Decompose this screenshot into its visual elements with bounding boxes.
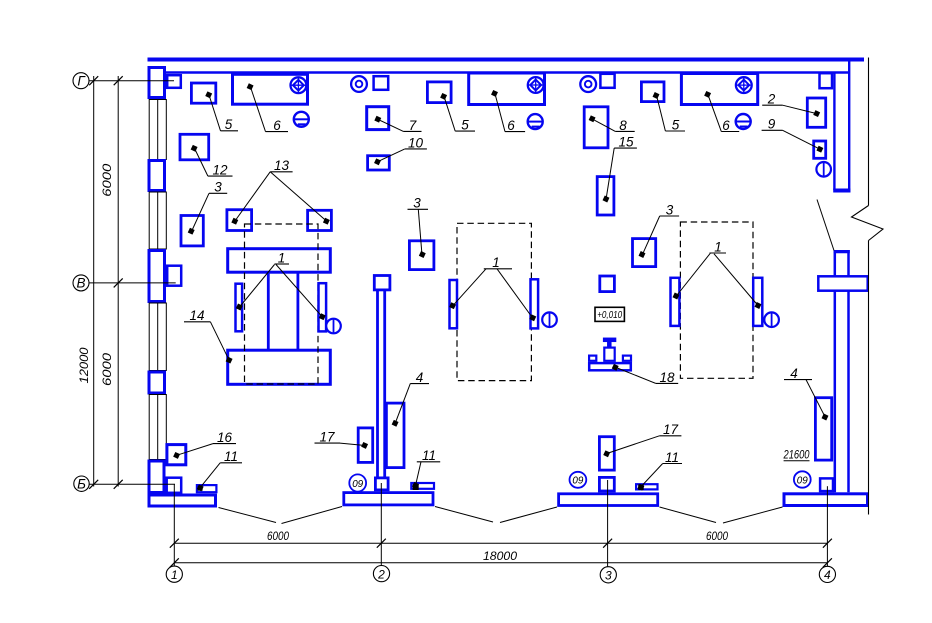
door mark ellipse 09 axis3 xyxy=(570,472,587,488)
svg-text:11: 11 xyxy=(224,449,238,464)
svg-text:21600: 21600 xyxy=(783,450,810,462)
right wall cap above door xyxy=(833,189,850,193)
svg-text:5: 5 xyxy=(225,117,233,132)
svg-text:2: 2 xyxy=(377,567,385,581)
dim line A bottom xyxy=(174,542,827,544)
post 1 bay2 right xyxy=(531,279,539,328)
bottom-left wall band xyxy=(149,495,216,506)
label 5 second xyxy=(440,93,475,133)
mark 21600 xyxy=(783,450,810,462)
wheel symbol bay3 xyxy=(764,312,779,327)
svg-text:4: 4 xyxy=(416,370,424,385)
equipment 3 third xyxy=(633,239,656,267)
svg-text:6: 6 xyxy=(273,118,281,133)
left wall corner block xyxy=(149,68,165,98)
axis extension line 3 xyxy=(607,480,609,567)
lift 14 bottom bar xyxy=(228,350,331,384)
footing axis2 xyxy=(344,493,433,505)
axis extension line 1 xyxy=(173,484,175,566)
svg-text:Б: Б xyxy=(77,476,86,491)
label 1 bay3 xyxy=(673,239,762,309)
axis circle Г xyxy=(73,73,89,89)
window 1 xyxy=(149,100,166,160)
break line outer right upper xyxy=(868,58,870,206)
equipment 15 xyxy=(597,177,614,215)
theta symbol 2 xyxy=(528,114,543,129)
footing axis3 xyxy=(559,494,658,506)
svg-text:09: 09 xyxy=(572,475,583,487)
post 1 bay2 left xyxy=(450,280,458,328)
svg-text:14: 14 xyxy=(189,308,204,323)
label 12 xyxy=(191,145,233,178)
svg-text:6000: 6000 xyxy=(706,531,729,543)
concentric circle symbol 1 xyxy=(351,76,367,92)
equipment 10 xyxy=(368,156,390,170)
svg-text:13: 13 xyxy=(274,158,290,173)
wall top inner line xyxy=(166,71,851,74)
label 6 second xyxy=(491,90,525,133)
equipment 3 second xyxy=(409,241,434,270)
svg-text:16: 16 xyxy=(217,430,233,445)
axis extension line 4 xyxy=(826,486,828,566)
left wall pier 2 xyxy=(149,372,165,393)
door mark ellipse 09 axis2 xyxy=(349,474,366,491)
svg-text:09: 09 xyxy=(352,478,363,490)
axis circle 2 xyxy=(373,566,389,582)
svg-text:В: В xyxy=(76,276,85,291)
svg-text:+0,010: +0,010 xyxy=(597,309,622,321)
equipment 6 third workbench xyxy=(681,74,757,105)
label 13 xyxy=(231,158,330,224)
fan symbol 3 xyxy=(736,77,752,93)
label 2 xyxy=(762,92,820,117)
label 4 second xyxy=(784,366,828,420)
elevation box +0,010 xyxy=(595,307,624,321)
label 11 second xyxy=(637,450,682,491)
label 15 xyxy=(603,135,637,203)
svg-text:7: 7 xyxy=(409,118,417,133)
label 17 second xyxy=(603,422,681,457)
svg-text:17: 17 xyxy=(319,430,335,445)
partition shaft axis2 xyxy=(378,290,385,478)
label 6 third xyxy=(704,91,739,133)
equipment 17 second xyxy=(599,437,614,470)
label 9 xyxy=(762,117,824,153)
right wall inner line upper xyxy=(833,72,835,190)
fan symbol 1 xyxy=(291,77,307,93)
left wall pier 1 xyxy=(149,161,165,191)
theta symbol 3 xyxy=(736,114,751,129)
wheel symbol bay1 xyxy=(326,319,341,334)
theta symbol 1 xyxy=(294,112,309,127)
axis circle 3 xyxy=(600,567,616,583)
svg-text:4: 4 xyxy=(790,366,798,381)
axis line В xyxy=(89,282,176,284)
svg-text:12000: 12000 xyxy=(79,347,91,384)
label 1 bay1 xyxy=(236,250,326,320)
equipment 5 third xyxy=(641,82,664,102)
svg-text:09: 09 xyxy=(797,474,808,486)
equipment 11 bottom-left xyxy=(197,485,217,492)
svg-text:3: 3 xyxy=(413,196,421,211)
dim line B bottom xyxy=(174,562,827,564)
equipment 11 first xyxy=(411,483,434,490)
svg-text:18000: 18000 xyxy=(483,551,518,563)
svg-text:9: 9 xyxy=(768,117,776,132)
dashed car stall bay 1 xyxy=(245,224,319,384)
equipment 2 xyxy=(807,98,825,127)
equipment 4 first xyxy=(386,403,404,468)
axis line Г xyxy=(89,80,174,82)
svg-text:15: 15 xyxy=(618,135,634,150)
right wall outer line lower xyxy=(847,250,850,492)
label 14 xyxy=(184,308,233,363)
bottom-right wall band xyxy=(784,494,868,506)
label 10 xyxy=(374,135,427,165)
svg-text:5: 5 xyxy=(672,117,680,132)
window 3 xyxy=(149,303,166,371)
label 11 bottom-left xyxy=(197,449,242,491)
wheel symbol by 9 xyxy=(816,162,831,177)
svg-text:6000: 6000 xyxy=(102,163,114,197)
label 3 first xyxy=(188,180,227,235)
svg-text:6000: 6000 xyxy=(267,531,290,543)
svg-text:17: 17 xyxy=(663,422,679,437)
equipment 7 xyxy=(367,107,389,130)
equipment 13 left xyxy=(227,210,252,231)
door leaf right wall xyxy=(817,200,834,251)
equipment 8 xyxy=(584,107,608,148)
svg-text:1: 1 xyxy=(714,239,722,254)
left wall bottom block xyxy=(149,461,164,493)
dashed car stall bay 2 xyxy=(457,223,531,380)
svg-text:12: 12 xyxy=(212,163,228,178)
post 1 bay1 left xyxy=(236,284,243,332)
axis circle Б xyxy=(74,476,89,491)
fan symbol 2 xyxy=(528,77,544,93)
apron gate1 left xyxy=(219,508,277,523)
apron gate1 right xyxy=(282,507,343,524)
right wall outer line upper xyxy=(848,62,850,193)
dashed car stall bay 3 xyxy=(680,222,753,378)
wheel symbol bay2 xyxy=(542,312,557,327)
label 18 xyxy=(612,364,678,385)
window 4 xyxy=(149,395,166,460)
svg-text:6000: 6000 xyxy=(102,352,114,386)
ticks bottom dims xyxy=(170,539,832,568)
svg-text:1: 1 xyxy=(278,250,286,265)
equipment 6 second workbench xyxy=(469,73,545,105)
equipment 16 xyxy=(167,445,186,465)
equipment 6 first workbench xyxy=(233,74,308,104)
dim line 6000 vertical xyxy=(117,76,119,487)
label 4 first xyxy=(392,370,429,427)
label 17 first xyxy=(315,430,369,449)
svg-text:3: 3 xyxy=(666,202,674,217)
axis extension line 2 xyxy=(380,483,382,566)
axis circle 1 xyxy=(166,566,182,582)
equipment 4 second xyxy=(815,398,831,460)
right wall notch top corner xyxy=(820,73,833,88)
small square by circles 1 xyxy=(374,76,389,90)
apron gate2 right xyxy=(500,507,557,523)
equipment 13 right xyxy=(308,210,332,230)
equipment 12 xyxy=(180,134,209,160)
equipment 17 first xyxy=(358,428,373,463)
post 1 bay3 right xyxy=(753,278,762,326)
svg-text:11: 11 xyxy=(422,448,436,463)
right wall cap below door xyxy=(834,250,850,253)
post 1 bay3 left xyxy=(671,278,680,326)
svg-text:6: 6 xyxy=(722,118,730,133)
equipment 5 second xyxy=(427,82,451,103)
label 3 third xyxy=(639,202,680,258)
break line outer right lower xyxy=(868,241,870,515)
left wall notch at axis B xyxy=(167,266,181,286)
label 3 second xyxy=(408,196,429,258)
label 8 xyxy=(589,115,635,132)
label 1 bay2 xyxy=(449,255,536,321)
svg-text:10: 10 xyxy=(408,135,424,150)
partition base column axis2 xyxy=(375,478,388,490)
axis circle 4 xyxy=(819,566,835,582)
label 5 third xyxy=(653,92,685,132)
svg-text:1: 1 xyxy=(492,255,500,270)
jack 18 xyxy=(589,340,631,371)
label 11 first xyxy=(412,448,440,489)
svg-text:4: 4 xyxy=(824,568,831,582)
left wall notch at axis 6 bottom xyxy=(167,478,182,493)
window 2 xyxy=(149,192,166,249)
ticks vertical dims xyxy=(89,76,123,489)
apron gate3 right xyxy=(723,507,783,523)
break zigzag xyxy=(852,206,884,241)
wall top outer xyxy=(148,58,865,62)
svg-text:3: 3 xyxy=(214,180,222,195)
svg-text:2: 2 xyxy=(767,92,776,107)
svg-text:1: 1 xyxy=(171,568,178,582)
apron gate3 left xyxy=(660,507,717,523)
equipment 3 first xyxy=(181,216,203,246)
svg-text:5: 5 xyxy=(461,118,469,133)
axis circle В xyxy=(73,275,89,291)
equipment 11 second xyxy=(636,484,657,490)
left wall pier at axis B xyxy=(149,251,165,302)
svg-text:18: 18 xyxy=(659,370,675,385)
label 16 xyxy=(173,430,236,459)
label 7 xyxy=(374,116,421,133)
column axis3 xyxy=(599,477,614,491)
axis line Б xyxy=(89,483,175,485)
label 5 first xyxy=(205,91,238,132)
post 1 bay1 right xyxy=(319,283,327,331)
partition cap axis2 xyxy=(374,276,390,290)
svg-text:8: 8 xyxy=(619,118,627,133)
label 6 first xyxy=(247,83,288,133)
svg-text:11: 11 xyxy=(665,450,679,465)
small square mid right xyxy=(600,276,615,292)
right wall notch bottom corner xyxy=(820,478,833,491)
svg-text:6: 6 xyxy=(507,118,515,133)
lift 14 right column xyxy=(296,273,299,351)
right wall pilaster at axis B xyxy=(818,276,867,290)
equipment 9 xyxy=(814,141,826,158)
concentric circle symbol 2 xyxy=(580,76,596,92)
door mark ellipse 09 axis4 xyxy=(794,471,811,487)
small square by circles 2 xyxy=(600,74,614,88)
right wall inner line lower xyxy=(834,250,837,492)
lift 14 left column xyxy=(267,273,270,351)
dim line 12000 vertical xyxy=(93,76,95,487)
svg-text:3: 3 xyxy=(605,569,612,583)
apron gate2 left xyxy=(435,507,493,523)
lift 14 top bar xyxy=(228,249,331,273)
left wall corner notch xyxy=(167,75,181,88)
equipment 5 first xyxy=(191,83,215,103)
